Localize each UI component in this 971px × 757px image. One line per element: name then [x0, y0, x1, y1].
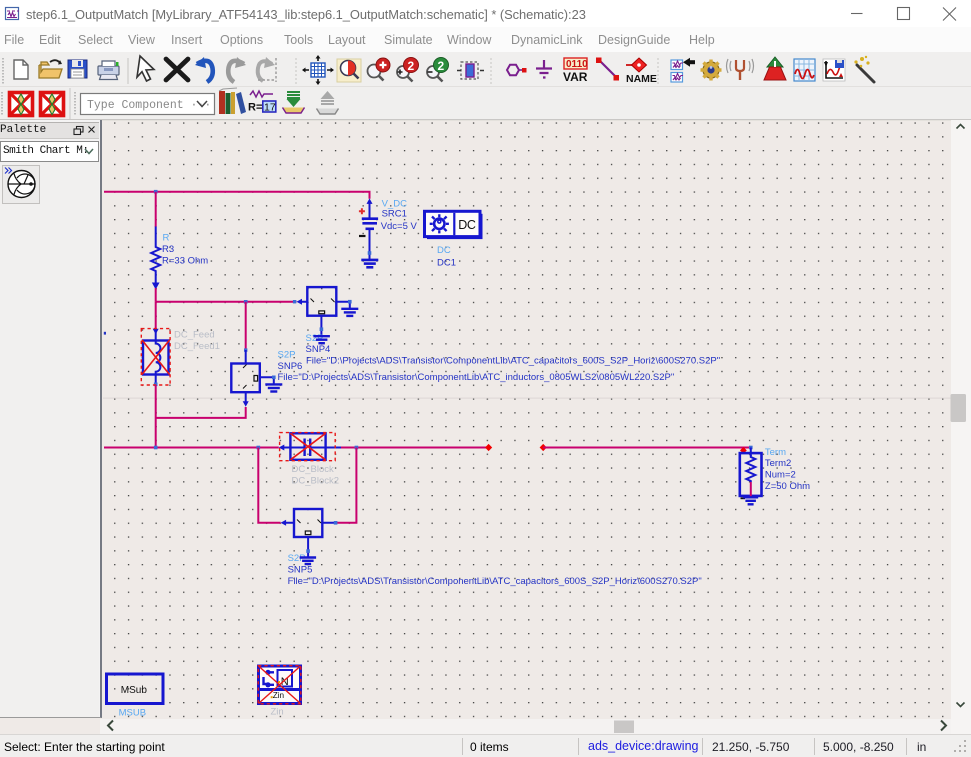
svg-text:Zin: Zin: [273, 691, 285, 700]
svg-text:Term: Term: [765, 447, 786, 458]
svg-text:File="D:\Projects\ADS\Transist: File="D:\Projects\ADS\Transistor\Compone…: [306, 356, 720, 367]
svg-text:2: 2: [438, 59, 445, 73]
sep: [127, 58, 129, 84]
undo: [197, 61, 213, 82]
books: [219, 88, 246, 114]
svg-text:Vdc=5 V: Vdc=5 V: [381, 221, 418, 232]
svg-text:R: R: [163, 232, 170, 243]
print: [98, 66, 119, 75]
svg-text:MSub: MSub: [121, 685, 148, 696]
port: [507, 65, 519, 75]
s2p SNP6: [231, 348, 275, 406]
svg-text:2: 2: [408, 59, 415, 73]
resistor R3: [151, 227, 160, 289]
svg-text:SNP6: SNP6: [278, 361, 303, 372]
open: [39, 62, 62, 78]
svg-text:Num=2: Num=2: [765, 470, 796, 481]
wire-label-out: [317, 91, 339, 114]
wire bias rail: [156, 301, 297, 303]
svg-text:DC: DC: [458, 218, 476, 232]
label DC1: [437, 245, 456, 268]
svg-text:File="D:\Projects\ADS\Transist: File="D:\Projects\ADS\Transistor\Compone…: [278, 372, 675, 383]
wire R3 bottom: [155, 288, 157, 302]
svg-text:VAR: VAR: [563, 70, 588, 84]
label Zin: [271, 707, 284, 718]
fork: [736, 60, 744, 71]
combo: [81, 94, 215, 115]
node junction SNP6 rail: [244, 300, 248, 304]
zoom-area: [337, 59, 361, 82]
sep: [295, 58, 297, 84]
svg-text:Zin: Zin: [271, 707, 284, 718]
zoom-out-2: [427, 66, 439, 78]
node junction main at x=155.7: [154, 446, 158, 450]
wire bypass left: [258, 448, 280, 523]
app icon: [6, 8, 19, 20]
substrate MSUB: [107, 674, 164, 704]
label DC_Block2: [292, 464, 340, 487]
var: [564, 58, 587, 69]
label DC_Feed1: [174, 329, 220, 352]
zoom-in-2: [397, 66, 409, 78]
wire main right: [543, 447, 751, 449]
svg-text:DC_Block: DC_Block: [292, 464, 334, 475]
wire bypass right: [336, 448, 357, 523]
window controls: [851, 8, 956, 21]
wand: [857, 65, 874, 82]
gear: [701, 60, 722, 81]
wire end diamond term: [740, 447, 747, 454]
palette float btn: [74, 127, 95, 135]
svg-text:Z=50 Ohm: Z=50 Ohm: [765, 481, 810, 492]
probe Zin: [258, 666, 301, 704]
dds: [794, 59, 815, 81]
node term2: [749, 446, 753, 450]
svg-text:R=33 Ohm: R=33 Ohm: [162, 256, 208, 267]
wire R3 top: [155, 192, 157, 227]
label Term2: [765, 447, 810, 492]
pan: [311, 63, 325, 77]
label SNP5: [288, 553, 702, 587]
svg-text:Type Component ···: Type Component ···: [87, 99, 211, 112]
wire-label-in: [283, 92, 305, 113]
smith chart button glyph: [5, 168, 35, 198]
svg-text:SNP5: SNP5: [288, 565, 313, 576]
hier: [671, 60, 683, 70]
svg-text:S2P: S2P: [278, 350, 296, 361]
svg-text:SNP4: SNP4: [306, 344, 331, 355]
node junction bypass left: [257, 446, 261, 450]
svg-text:DC_Feed: DC_Feed: [174, 329, 215, 340]
inductor DC_Feed1: [141, 329, 170, 387]
controller DC1: [425, 211, 483, 239]
svg-text:Term2: Term2: [765, 458, 791, 469]
optimize arrow: [767, 57, 783, 67]
svg-text:MSUB: MSUB: [119, 707, 146, 718]
zoom-in: [368, 65, 381, 78]
delete X: [166, 59, 188, 80]
r17: [248, 91, 276, 114]
ground-icon: [536, 60, 552, 78]
pointer: [137, 56, 154, 81]
label SNP6: [278, 350, 675, 384]
port Term2: [740, 448, 762, 499]
ground SNP4 pin2: [341, 309, 358, 316]
svg-text:DC_Block2: DC_Block2: [292, 476, 340, 487]
wire top rail: [104, 192, 370, 199]
wire end diamond right: [540, 444, 547, 451]
combo chevron: [85, 149, 93, 154]
capacitor DC_Block2: [279, 433, 341, 461]
label R3: [162, 232, 208, 266]
label SRC1: [381, 198, 418, 232]
svg-text:NAME: NAME: [626, 73, 657, 85]
svg-text:DC: DC: [437, 245, 451, 256]
svg-text:File="D:\Projects\ADS\Transist: File="D:\Projects\ADS\Transistor\Compone…: [288, 576, 702, 587]
wire main left: [104, 447, 279, 449]
label SNP4: [306, 333, 721, 367]
wire SNP6 bottom branch: [156, 407, 246, 419]
svg-text:DC_Feed1: DC_Feed1: [174, 341, 220, 352]
deact1: [10, 93, 33, 116]
node junction bypass right: [355, 446, 359, 450]
svg-text:17: 17: [264, 102, 276, 114]
node junction at R3 top rail: [154, 190, 158, 194]
name: [626, 64, 633, 66]
wire DC_Feed top: [155, 302, 157, 330]
save: [68, 60, 87, 78]
axis line y=398: [103, 398, 951, 399]
svg-text:R3: R3: [162, 244, 174, 255]
node clipped label at canvas edge: [104, 332, 106, 335]
deact2: [41, 93, 64, 116]
redo-sel: [258, 61, 272, 81]
ground SNP6: [265, 384, 282, 391]
sep: [657, 58, 659, 84]
redo: [228, 61, 244, 82]
svg-text:0110: 0110: [566, 59, 588, 70]
source V_DC SRC1: [359, 198, 378, 259]
svg-text:R=: R=: [248, 102, 262, 114]
sim-save: [823, 59, 845, 81]
wire-icon: [600, 61, 616, 77]
s2p SNP5: [281, 509, 338, 558]
svg-text:SRC1: SRC1: [382, 209, 407, 220]
ground SNP4 ref: [313, 336, 330, 343]
wire main mid: [341, 447, 489, 449]
s2p SNP4: [293, 287, 352, 336]
wire SNP6 top: [245, 302, 247, 351]
zoom-select: [461, 62, 478, 79]
ground SNP5: [300, 558, 317, 565]
sep: [490, 58, 492, 84]
svg-text:DC1: DC1: [437, 257, 456, 268]
ground Term2: [743, 497, 758, 504]
wire end diamond left: [485, 444, 492, 451]
grip: [2, 58, 4, 84]
wire DC_Feed bottom to main: [155, 385, 157, 448]
new: [14, 60, 28, 79]
label MSUB: [119, 707, 146, 718]
ground SRC1: [361, 260, 378, 267]
